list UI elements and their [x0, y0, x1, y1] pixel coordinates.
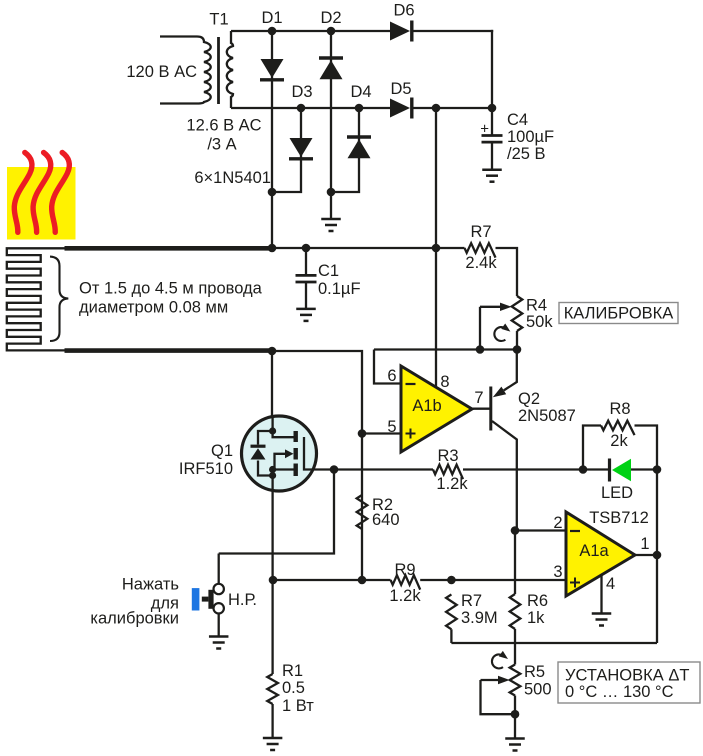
wire Q2 collector to A1a pin2 [511, 526, 520, 535]
wire V+ vertical to op-amp supply [435, 108, 437, 386]
node junction LED right [653, 465, 662, 474]
A1a plus sign [570, 582, 580, 584]
resistor R7 2.4k [465, 243, 496, 257]
svg-text:D2: D2 [320, 9, 341, 27]
svg-text:Нажать: Нажать [122, 576, 179, 594]
svg-text:От 1.5 до 4.5 м провода: От 1.5 до 4.5 м провода [79, 280, 263, 298]
svg-text:КАЛИБРОВКА: КАЛИБРОВКА [564, 305, 674, 323]
trim arrow R4 [494, 327, 505, 341]
wire D2 branch vertical [330, 31, 332, 192]
svg-text:C1: C1 [318, 262, 339, 280]
wire A1b output to Q2 base [472, 408, 490, 410]
node junction C4 top [488, 104, 497, 113]
svg-text:D3: D3 [291, 83, 312, 101]
capacitor C1 top lead [302, 244, 311, 253]
wire A1b pin6 riser [374, 350, 401, 384]
resistor R3 1.2k [433, 465, 463, 479]
diode D3 [290, 138, 313, 157]
svg-text:0.5: 0.5 [282, 679, 305, 697]
wire R6 top [514, 531, 516, 595]
node junction D1-D3 cathodes [268, 188, 277, 197]
svg-text:1: 1 [640, 535, 649, 553]
transistor Q1 MOSFET circle [242, 416, 317, 491]
heat wave red squiggle 3 [52, 153, 70, 233]
svg-text:калибровки: калибровки [90, 610, 179, 628]
box label КАЛИБРОВКА [559, 303, 678, 324]
ground bridge [321, 218, 341, 221]
svg-text:500: 500 [524, 681, 552, 699]
R5 wiper arrow [481, 679, 499, 681]
pushbutton top contact [218, 554, 220, 584]
wire LED right lead [631, 468, 657, 470]
transformer T1 secondary winding [227, 31, 233, 108]
resistor R2 640 [357, 495, 368, 529]
trim arrow R5 [492, 654, 503, 668]
node junction V+ rail [432, 104, 441, 113]
wire A1a pin4 to ground [600, 575, 602, 614]
wire D3 branch [272, 108, 301, 192]
pushbutton plunger [208, 590, 213, 609]
svg-text:R8: R8 [609, 400, 630, 418]
wire R7b bottom [450, 629, 452, 643]
svg-text:640: 640 [372, 511, 400, 529]
heat wave red squiggle 1 [14, 153, 32, 233]
node junction pin5 [358, 429, 367, 438]
diode D5 [390, 99, 410, 118]
node junction D2-D4 anodes [327, 188, 336, 197]
wire Q1 drain from heater bottom [271, 351, 273, 416]
svg-text:6: 6 [387, 367, 396, 385]
node junction R4 wiper [476, 345, 485, 354]
resistor R5 500 potentiometer [510, 665, 521, 696]
svg-text:R9: R9 [394, 561, 415, 579]
Q1 body diode [251, 445, 266, 448]
wire top AC rail [231, 30, 390, 32]
svg-text:T1: T1 [209, 11, 228, 29]
svg-text:LED: LED [601, 484, 633, 502]
wire source sense rail [273, 579, 391, 581]
wire R4 wiper to bottom node [479, 307, 481, 350]
svg-text:8: 8 [440, 373, 449, 391]
node junction D2 top [327, 27, 336, 36]
svg-text:1k: 1k [527, 609, 545, 627]
box label УСТАНОВКА [558, 662, 700, 703]
resistor R4 50k potentiometer [512, 296, 523, 331]
svg-text:1 Вт: 1 Вт [282, 697, 314, 715]
svg-text:R4: R4 [526, 297, 547, 315]
wire D5 cathode to C4 node [412, 107, 493, 109]
svg-text:Q2: Q2 [518, 390, 540, 408]
brace heater note [50, 257, 68, 341]
node junction heater bottom [268, 347, 277, 356]
node junction D3 anode [297, 104, 306, 113]
resistor R1 0.5 1W [267, 674, 278, 704]
resistor R9 1.2k [391, 575, 421, 589]
resistor R7 3.9M [446, 594, 457, 629]
node junction D4 anode [355, 104, 364, 113]
wire gate to R3 [317, 468, 433, 470]
svg-text:D6: D6 [393, 2, 414, 20]
wire output vertical [656, 470, 658, 644]
svg-text:3.9M: 3.9M [461, 609, 498, 627]
ground A1a [592, 612, 612, 615]
svg-text:D4: D4 [350, 83, 371, 101]
wire C4 top lead [491, 108, 493, 136]
wire bottom AC rail [231, 107, 390, 109]
node junction R4 bottom [513, 345, 522, 354]
svg-text:0.1µF: 0.1µF [318, 280, 361, 298]
svg-text:6×1N5401: 6×1N5401 [194, 169, 271, 187]
wire R8 left lead [583, 426, 601, 470]
node junction R2 bottom [358, 576, 367, 585]
svg-text:R7: R7 [470, 223, 491, 241]
wire D1 branch vertical [271, 31, 273, 249]
diode D2 [319, 56, 343, 59]
svg-text:/3 А: /3 А [207, 136, 236, 154]
ground C4 [482, 168, 502, 171]
svg-text:УСТАНОВКА ΔТ: УСТАНОВКА ΔТ [565, 667, 689, 685]
node junction R5 bottom [511, 710, 520, 719]
node junction D1 top [268, 27, 277, 36]
svg-text:Н.Р.: Н.Р. [228, 591, 257, 609]
wire A1b pin5 lead [362, 432, 401, 434]
wire LED left lead [583, 468, 609, 470]
svg-text:D5: D5 [390, 80, 411, 98]
resistor R6 1k [510, 594, 521, 629]
svg-text:50k: 50k [526, 313, 553, 331]
A1b plus sign [406, 433, 416, 435]
ground R5 [505, 737, 525, 740]
wire D6 cathode to C4 node corner [412, 30, 494, 32]
node junction Q1 source [269, 576, 278, 585]
wire R4 node rail [374, 348, 517, 350]
svg-text:7: 7 [474, 389, 483, 407]
A1b minus sign [406, 383, 416, 385]
wire feedback rail [451, 642, 657, 644]
R4 wiper arrow [480, 306, 500, 308]
Q1 body arrow [273, 454, 285, 470]
svg-text:2: 2 [553, 514, 562, 532]
svg-text:R7: R7 [461, 592, 482, 610]
node junction R7b top [447, 576, 456, 585]
node junction LED anode-side [579, 465, 588, 474]
wire R9 to pin3 [420, 579, 566, 581]
op-amp A1b [401, 366, 472, 452]
svg-text:Q1: Q1 [211, 442, 233, 460]
wire R5 wiper loop [481, 680, 516, 714]
Q1 source internal [273, 470, 294, 492]
capacitor C4 [482, 134, 503, 137]
node junction V+ heater-top rail [432, 244, 441, 253]
diode D6 [390, 22, 410, 41]
wire R1 bottom [271, 704, 273, 738]
Q1 body diode branch [258, 431, 273, 445]
wire gate to pushbutton [219, 470, 334, 554]
svg-text:R6: R6 [527, 592, 548, 610]
wire C1 bottom lead [305, 282, 307, 309]
wire heater top rail to R7 [272, 247, 465, 249]
svg-text:12.6 В AC: 12.6 В AC [186, 117, 261, 135]
wire R8 right lead [635, 426, 658, 470]
wire R5 bottom [514, 696, 516, 739]
wire Q1 source lead [271, 491, 273, 580]
LED D7 [608, 459, 611, 482]
wire C4 bottom lead [491, 142, 493, 169]
svg-text:диаметром 0.08 мм: диаметром 0.08 мм [79, 299, 228, 317]
svg-text:3: 3 [553, 563, 562, 581]
svg-text:/25 В: /25 В [507, 145, 546, 163]
wire pushbutton to ground [218, 614, 220, 637]
svg-text:D1: D1 [261, 9, 282, 27]
Q2 emitter lead with arrow [504, 350, 517, 391]
svg-text:1.2k: 1.2k [436, 475, 468, 493]
diode D1 [261, 59, 284, 78]
heat waves yellow box [7, 167, 76, 240]
wire D2 to ground [330, 192, 332, 219]
transformer T1 primary winding [160, 37, 211, 104]
svg-text:IRF510: IRF510 [179, 460, 233, 478]
Q1 channel plates [294, 431, 298, 442]
transformer T1 core [217, 37, 220, 104]
Q1 drain internal [273, 416, 294, 437]
resistor R8 2k [601, 421, 635, 435]
svg-text:TSB712: TSB712 [589, 509, 649, 527]
svg-text:R1: R1 [282, 662, 303, 680]
wire R6 bottom to R5 [514, 629, 516, 665]
pushbutton actuator blue [192, 588, 200, 610]
svg-text:R5: R5 [524, 663, 545, 681]
ground C1 [296, 308, 316, 311]
svg-text:R3: R3 [437, 447, 458, 465]
A1a minus sign [570, 530, 580, 532]
svg-text:5: 5 [387, 418, 396, 436]
svg-text:C4: C4 [507, 111, 528, 129]
wire A1a output [635, 554, 657, 556]
node junction heater top [268, 244, 277, 253]
wire R7 to R4 [496, 248, 518, 296]
svg-text:2k: 2k [610, 432, 628, 450]
pushbutton bottom contact [214, 603, 224, 613]
wire D4 branch [331, 108, 359, 192]
svg-text:4: 4 [606, 575, 615, 593]
diode D4 [347, 135, 371, 138]
transistor Q2 base bar [489, 387, 492, 431]
ground R1 [263, 737, 283, 740]
svg-text:100µF: 100µF [507, 128, 554, 146]
Q1 gate electrode [304, 437, 317, 470]
ground pushbutton [209, 635, 229, 638]
svg-text:A1a: A1a [579, 542, 609, 560]
svg-text:A1b: A1b [412, 397, 441, 415]
heater nichrome wire meander [7, 248, 66, 350]
svg-text:+: + [480, 121, 489, 138]
svg-text:0 °C … 130 °C: 0 °C … 130 °C [565, 683, 674, 701]
capacitor C1 [296, 274, 317, 277]
wire R3 to LED node [463, 468, 583, 470]
wire heater bottom to sense riser [272, 351, 362, 580]
svg-text:2.4k: 2.4k [465, 254, 497, 272]
wire R4 bottom lead [516, 331, 518, 350]
wire source node to R1 [271, 580, 273, 674]
svg-text:120 В AC: 120 В AC [126, 63, 197, 81]
node junction A1a output [653, 551, 662, 560]
svg-text:2N5087: 2N5087 [518, 407, 576, 425]
node junction Q1 gate [330, 465, 339, 474]
Q2 collector lead [492, 421, 517, 531]
wire heater top thick lead [65, 246, 275, 251]
op-amp A1a [566, 512, 635, 596]
svg-text:1.2k: 1.2k [389, 587, 421, 605]
wire heater bottom thick lead [65, 348, 275, 353]
heat wave red squiggle 2 [33, 153, 51, 233]
